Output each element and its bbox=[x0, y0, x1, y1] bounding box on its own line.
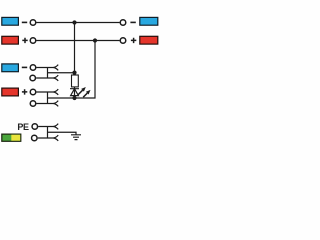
polarity sign plus, terminal 4 bbox=[22, 89, 27, 94]
spring clamp symbol row 4 (bar and forks) bbox=[36, 89, 58, 106]
resistor R1 bbox=[72, 75, 79, 87]
wire: plus feed drop and return to LED cathode bus bbox=[75, 41, 96, 99]
clamp contact circle PE b bbox=[32, 135, 38, 141]
terminal marker 4 (red) bbox=[2, 88, 19, 96]
wire: LED branch drop from minus bus bbox=[74, 23, 76, 73]
junction: minus bus to LED branch bbox=[72, 20, 76, 24]
LED D1 (cathode bar, triangle, leads) bbox=[70, 87, 79, 98]
wire: minus bus row 1 bbox=[36, 22, 119, 24]
junction: LED cathode bus node bbox=[72, 96, 76, 100]
polarity sign plus, terminal 2 right bbox=[131, 38, 136, 43]
terminal marker 3 (blue) bbox=[2, 64, 19, 72]
clamp contact circle, terminal 2 left bbox=[30, 38, 36, 44]
spring clamp symbol PE (bar and forks) bbox=[38, 124, 59, 141]
clamp contact circle PE a bbox=[32, 124, 38, 130]
polarity sign minus, terminal 1 right bbox=[130, 21, 135, 23]
clamp contact circle, terminal 1 left bbox=[30, 20, 36, 26]
terminal marker PE (green-yellow) bbox=[2, 134, 21, 141]
wire: plus bus row 2 bbox=[36, 40, 119, 42]
terminal marker 2 right (red) bbox=[140, 36, 158, 44]
junction: plus bus to LED feed bbox=[93, 38, 97, 42]
terminal marker 1 left (blue) bbox=[2, 17, 19, 25]
clamp contact circle, terminal 2 right bbox=[120, 38, 126, 44]
polarity sign plus, terminal 2 left bbox=[22, 38, 27, 43]
clamp contact circle 4a bbox=[30, 89, 36, 95]
wire: row 3 common to LED branch bbox=[48, 72, 75, 74]
wire: row 4 common to LED cathode bus bbox=[48, 97, 75, 99]
junction: row 3 common joins LED branch bbox=[72, 71, 76, 75]
spring clamp symbol row 3 (bar and forks) bbox=[36, 65, 58, 81]
earth ground symbol bbox=[71, 135, 81, 140]
clamp contact circle 3b bbox=[30, 75, 36, 81]
polarity sign minus, terminal 3 bbox=[22, 66, 27, 68]
wire: PE common to earth bbox=[48, 132, 77, 135]
terminal marker 2 left (red) bbox=[2, 36, 19, 44]
clamp contact circle, terminal 1 right bbox=[120, 20, 126, 26]
clamp contact circle 4b bbox=[30, 101, 36, 107]
polarity sign minus, terminal 1 left bbox=[22, 21, 27, 23]
terminal marker 1 right (blue) bbox=[140, 17, 158, 25]
clamp contact circle 3a bbox=[30, 65, 36, 71]
svg-text:PE: PE bbox=[17, 122, 29, 132]
LED emission arrows bbox=[78, 87, 90, 97]
